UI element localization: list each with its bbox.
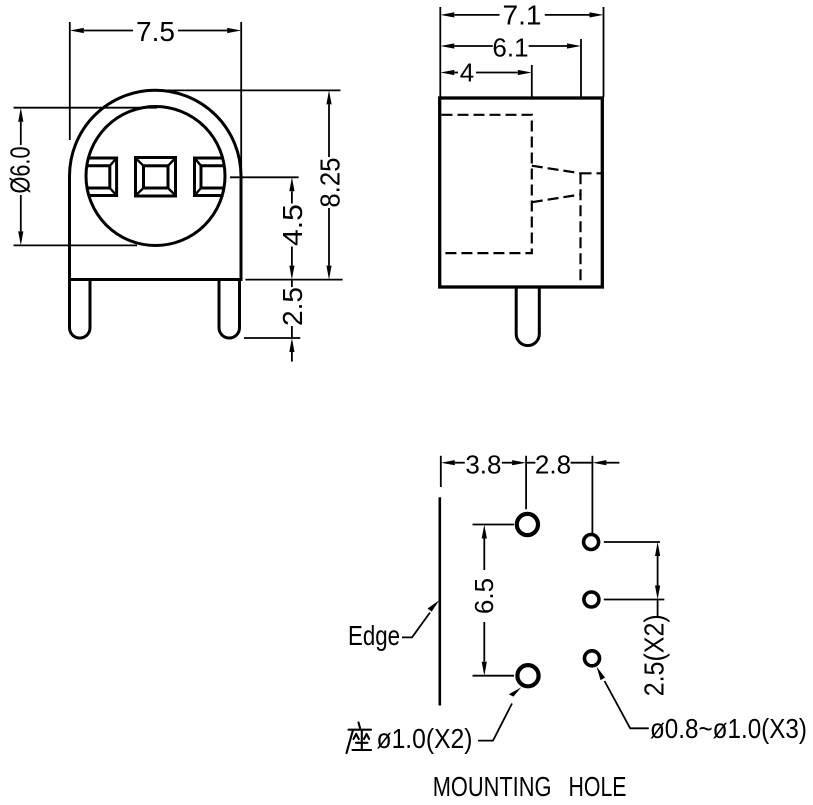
- leader to hole D: [605, 681, 649, 728]
- leader to hole E: [478, 704, 512, 741]
- dimension 6.5: [473, 525, 515, 676]
- svg-text:6.5: 6.5: [469, 578, 499, 614]
- svg-text:7.5: 7.5: [136, 16, 175, 47]
- svg-text:4: 4: [460, 58, 474, 88]
- dimension 8.25 (front height): [160, 90, 343, 279]
- side view body box: [440, 98, 603, 287]
- svg-text:8.25: 8.25: [315, 158, 346, 208]
- svg-text:2.8: 2.8: [535, 450, 571, 480]
- dimension 4.5 (contact row to bottom): [230, 177, 299, 265]
- side view leg: [516, 287, 539, 346]
- svg-text:6.1: 6.1: [492, 33, 528, 63]
- front view right leg: [219, 280, 240, 339]
- front view body outline: [70, 90, 242, 279]
- dimension diameter 6.0 (lens): [14, 108, 158, 246]
- hole B right top: [584, 535, 599, 550]
- dimension 2.5 (leg length): [244, 280, 300, 362]
- hole E bottom-left large: [517, 665, 538, 686]
- Edge leader: [402, 613, 430, 638]
- svg-text:4.5: 4.5: [277, 204, 308, 246]
- dimension 7.5 (front width): [70, 22, 241, 176]
- svg-text:3.8: 3.8: [465, 450, 501, 480]
- front view lens circle: [86, 107, 225, 246]
- svg-text:7.1: 7.1: [503, 0, 542, 31]
- hole D right bottom: [585, 651, 600, 666]
- dimension 2.8: [526, 456, 619, 534]
- svg-text:Edge: Edge: [348, 620, 400, 651]
- svg-text:Ø6.0: Ø6.0: [5, 147, 36, 194]
- hole C right middle: [584, 592, 599, 607]
- hole A top-left large: [517, 514, 538, 535]
- svg-text:ø0.8~ø1.0(X3): ø0.8~ø1.0(X3): [650, 713, 807, 744]
- dimension 2.5(X2): [604, 542, 665, 617]
- hidden cavity dashed rectangle: [442, 115, 532, 253]
- dimension 4: [454, 65, 532, 97]
- edge line: [438, 497, 441, 705]
- svg-text:ø1.0(X2): ø1.0(X2): [377, 723, 473, 754]
- left contact socket: [87, 158, 117, 196]
- front view left leg: [70, 280, 91, 339]
- dimension 7.1 (side width): [440, 7, 603, 97]
- label zuo dia 1.0 (X2) : hand-drawn CJK 座: [347, 723, 372, 754]
- svg-text:2.5: 2.5: [277, 287, 308, 326]
- svg-text:HOLE: HOLE: [569, 771, 627, 802]
- middle contact socket: [136, 158, 176, 197]
- dimension 3.8: [441, 456, 526, 509]
- dimension 6.1: [454, 39, 581, 97]
- hidden taper dashed lines: [532, 166, 603, 281]
- svg-text:MOUNTING: MOUNTING: [433, 771, 552, 802]
- svg-text:2.5(X2): 2.5(X2): [639, 614, 670, 696]
- right contact socket: [195, 158, 225, 196]
